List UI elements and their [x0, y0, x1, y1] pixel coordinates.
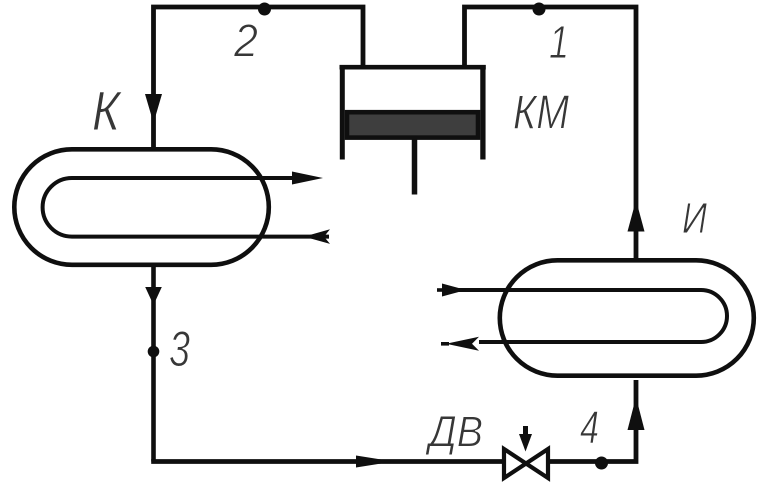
evaporator I inner coil (U-tube): [455, 290, 727, 342]
valve DV stem with down arrow: [523, 426, 528, 438]
condenser coolant outlet arrow (right, pointing right): [292, 172, 323, 185]
condenser K inner coil (U-tube): [43, 178, 329, 237]
condenser K outer shell: [14, 149, 268, 264]
flow arrow up to compressor suction: [628, 200, 645, 232]
compressor KM cylinder top: [340, 65, 486, 70]
wire bottom run (valve to right corner, up to evaporator): [548, 380, 636, 462]
svg-text:3: 3: [169, 321, 190, 377]
wire bottom run (corner to valve): [151, 459, 504, 464]
compressor KM cylinder left wall: [340, 65, 345, 160]
valve DV body (bowtie): [504, 449, 548, 478]
flow arrow up into evaporator: [628, 397, 645, 430]
node 1: [533, 3, 546, 16]
node 4: [595, 457, 608, 470]
wire top-left (node2 run: condenser up-leg, top pipe, into compressor left stub): [154, 7, 364, 149]
svg-text:ДВ: ДВ: [424, 409, 483, 457]
evaporator brine outlet arrow (left, pointing left): [441, 342, 449, 346]
node 2: [258, 3, 271, 16]
wire right run (compressor right stub, top pipe, down to evaporator): [465, 7, 637, 260]
compressor KM cylinder right wall: [480, 65, 485, 160]
flow arrow down below condenser: [145, 287, 162, 305]
svg-text:К: К: [92, 79, 123, 142]
svg-text:1: 1: [549, 16, 569, 68]
compressor KM piston rod: [412, 139, 418, 195]
svg-text:4: 4: [580, 401, 599, 453]
svg-text:2: 2: [233, 15, 258, 67]
svg-text:КМ: КМ: [513, 87, 569, 140]
node 3: [148, 346, 160, 358]
flow arrow right on bottom run: [356, 456, 394, 468]
condenser coolant inlet arrow (right, pointing left): [304, 229, 330, 244]
flow arrow down into condenser: [145, 94, 162, 123]
evaporator brine inlet arrow (left, pointing right): [437, 288, 444, 292]
compressor KM piston: [347, 112, 478, 137]
wire condenser down-leg to bottom corner: [151, 265, 156, 462]
svg-text:И: И: [682, 194, 707, 243]
evaporator I outer shell: [500, 260, 754, 375]
